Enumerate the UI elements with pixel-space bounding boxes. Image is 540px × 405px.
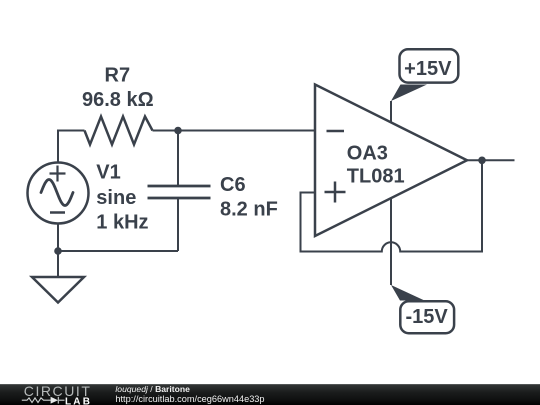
wire: output stub <box>467 159 515 161</box>
svg-text:+15V: +15V <box>404 58 452 80</box>
label R7 <box>82 65 154 111</box>
svg-text:8.2 nF: 8.2 nF <box>220 199 278 221</box>
wire: feedback from + input to output <box>301 160 483 251</box>
resistor R7 <box>85 117 153 145</box>
wire: V- power pin <box>390 198 392 285</box>
wire: V1 bottom lead down to ground <box>57 224 59 278</box>
CircuitLab logo <box>0 384 100 405</box>
svg-text:V1: V1 <box>96 162 120 184</box>
footer bar <box>0 384 540 405</box>
capacitor C6 <box>148 131 211 252</box>
svg-text:TL081: TL081 <box>347 166 405 188</box>
label OA3 <box>347 143 405 188</box>
wire: V1 top lead up and right to R7 <box>58 131 85 164</box>
wire: C6 bottom to ground node <box>58 250 178 252</box>
svg-text:96.8 kΩ: 96.8 kΩ <box>82 89 154 111</box>
label C6 <box>220 174 278 221</box>
svg-text:-15V: -15V <box>405 306 448 328</box>
power label +15V <box>391 49 458 101</box>
wire: V+ power pin <box>390 101 392 123</box>
label V1 <box>96 162 148 234</box>
power label -15V <box>391 285 454 333</box>
voltage source V1 <box>28 163 89 224</box>
svg-text:R7: R7 <box>105 65 131 87</box>
op-amp OA3 <box>315 85 467 237</box>
node: junction V1/C6 ground rail <box>54 247 62 255</box>
node: output junction <box>478 157 486 165</box>
svg-text:LAB: LAB <box>65 396 92 405</box>
wire: R7 right to op-amp inverting input <box>153 130 316 132</box>
svg-text:C6: C6 <box>220 174 246 196</box>
ground <box>32 277 84 303</box>
svg-text:sine: sine <box>96 187 136 209</box>
svg-text:OA3: OA3 <box>347 143 388 165</box>
svg-text:1 kHz: 1 kHz <box>96 212 148 234</box>
node: junction R7/C6 <box>174 127 182 135</box>
